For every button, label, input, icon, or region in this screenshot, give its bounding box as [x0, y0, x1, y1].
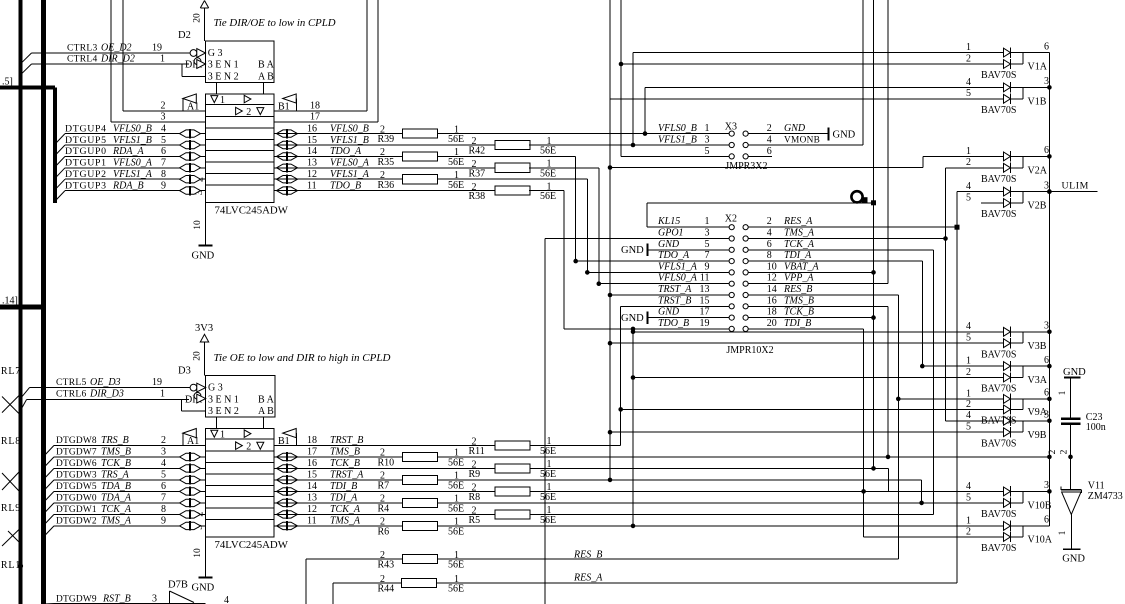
svg-text:17: 17	[700, 307, 710, 318]
wire VFLS1_B to X3	[529, 144, 729, 146]
wire V3B output	[1023, 331, 1049, 333]
resistor R5	[495, 510, 530, 519]
wire to resistor R4	[274, 502, 403, 504]
svg-text:D7B: D7B	[168, 580, 188, 591]
svg-text:CTRL6: CTRL6	[56, 390, 87, 400]
bidirectional buffer arrow	[180, 153, 201, 160]
wire TCK_B row R9	[530, 467, 888, 469]
buffer box D2	[206, 94, 275, 203]
svg-text:TDI_B: TDI_B	[330, 481, 357, 492]
jumper pin circle	[729, 292, 734, 297]
direction glyph down-triangle 1	[211, 430, 218, 437]
bidirectional buffer arrow	[180, 164, 201, 171]
direction glyph right-triangle	[244, 430, 251, 438]
svg-text:DTGDW2: DTGDW2	[56, 517, 97, 527]
buffer row separator	[206, 150, 275, 152]
pin G polarity triangle	[197, 49, 206, 58]
wire DTGUP5 VFLS1_B	[55, 145, 65, 156]
wire VFLS1_A row	[587, 271, 729, 273]
svg-text:DTGDW0: DTGDW0	[56, 494, 97, 504]
wire TDO_B down	[529, 190, 564, 192]
svg-text:18: 18	[310, 100, 320, 111]
svg-text:TCK_B: TCK_B	[330, 458, 360, 469]
svg-text:TCK_A: TCK_A	[784, 239, 815, 250]
svg-text:13: 13	[700, 284, 710, 295]
wire pin 18 to top	[274, 110, 367, 112]
svg-text:3: 3	[705, 135, 710, 146]
pin G bubble	[190, 50, 197, 57]
svg-text:Tie OE to low and DIR to high: Tie OE to low and DIR to high in CPLD	[214, 352, 391, 364]
wire DTGDW2 TMS_A	[44, 526, 54, 537]
svg-text:56E: 56E	[448, 504, 464, 515]
svg-text:R44: R44	[378, 584, 395, 595]
svg-text:9: 9	[161, 180, 166, 191]
junction on rail	[1047, 489, 1052, 494]
svg-text:56E: 56E	[448, 458, 464, 469]
junction	[631, 375, 636, 380]
svg-text:GPO1: GPO1	[658, 228, 684, 239]
svg-text:2: 2	[380, 574, 385, 585]
wire KL15/VBAT/TCK_B vertical from top	[873, 0, 875, 468]
svg-text:R43: R43	[378, 560, 395, 571]
svg-text:56E: 56E	[540, 446, 556, 457]
svg-text:GND: GND	[621, 245, 644, 256]
svg-text:20: 20	[193, 351, 203, 361]
resistor R36	[403, 175, 438, 184]
svg-text:A1: A1	[187, 436, 199, 447]
svg-text:TMS_A: TMS_A	[784, 228, 815, 239]
svg-text:1: 1	[966, 42, 971, 53]
bidirectional buffer arrow	[277, 511, 298, 518]
svg-text:TDI_B: TDI_B	[784, 318, 811, 329]
buffer row separator	[206, 484, 274, 486]
svg-text:BAV70S: BAV70S	[981, 105, 1016, 116]
svg-text:V1B: V1B	[1028, 96, 1047, 107]
wire vertical TRST_B	[620, 306, 622, 445]
svg-text:4: 4	[966, 181, 971, 192]
svg-text:TDO_B: TDO_B	[330, 180, 361, 191]
wire TCK_B	[748, 317, 873, 319]
svg-text:2: 2	[1048, 449, 1058, 454]
svg-text:GND: GND	[1063, 367, 1086, 378]
svg-text:100n: 100n	[1086, 422, 1106, 433]
resistor R9	[495, 464, 530, 473]
wire V1B cathode join	[1011, 86, 1024, 88]
wire TDI_B	[748, 328, 863, 330]
svg-text:11: 11	[700, 273, 710, 284]
bidirectional buffer arrow	[277, 499, 298, 506]
buffer symbol D7B (clipped)	[170, 591, 195, 603]
wire V2A pin2	[946, 167, 1004, 169]
wire V2B cathode join	[1011, 191, 1024, 193]
bidirectional buffer arrow	[180, 453, 201, 460]
junction	[618, 407, 623, 412]
svg-text:V3B: V3B	[1028, 341, 1047, 352]
svg-text:16: 16	[307, 123, 317, 134]
junction on rail	[1047, 85, 1052, 90]
wire TMS_A	[748, 238, 945, 240]
direction glyph right-triangle 2	[236, 442, 243, 450]
svg-text:CTRL9: CTRL9	[0, 503, 21, 514]
svg-text:VFLS0_A: VFLS0_A	[113, 158, 153, 169]
wire V3B pin5	[610, 342, 1004, 344]
svg-text:JMPR3X2: JMPR3X2	[725, 161, 767, 172]
wire KL15 testpoint net	[647, 226, 729, 228]
jumper pin circle	[743, 315, 748, 320]
svg-text:8: 8	[767, 250, 772, 261]
svg-text:R37: R37	[469, 168, 486, 179]
buffer row separator	[206, 450, 274, 452]
pin EN1 polarity triangle	[197, 60, 206, 69]
svg-text:2: 2	[161, 100, 166, 111]
svg-text:3: 3	[161, 112, 166, 123]
svg-text:8: 8	[161, 169, 166, 180]
wire X2 pin5	[649, 249, 730, 251]
svg-text:15: 15	[307, 135, 317, 146]
svg-text:DTGDW7: DTGDW7	[56, 448, 97, 458]
svg-text:V2A: V2A	[1028, 165, 1048, 176]
long wire JMPR row to V2A pin1	[610, 167, 923, 169]
svg-text:Tie DIR/OE to low in CPLD: Tie DIR/OE to low in CPLD	[214, 17, 336, 29]
svg-text:2: 2	[472, 460, 477, 471]
buffer row separator	[206, 161, 275, 163]
svg-text:V9B: V9B	[1028, 430, 1047, 441]
svg-text:TRST_A: TRST_A	[330, 470, 364, 481]
wire TDO_A down	[438, 155, 576, 157]
diode V1B anode 1	[1004, 83, 1011, 92]
svg-text:2: 2	[380, 448, 385, 459]
wire V10B output	[1023, 490, 1049, 492]
svg-text:1: 1	[705, 216, 710, 227]
svg-text:2: 2	[380, 471, 385, 482]
svg-text:4: 4	[966, 77, 971, 88]
diode V3B anode 1	[1004, 327, 1011, 336]
svg-text:VFLS0_B: VFLS0_B	[113, 123, 152, 134]
svg-text:56E: 56E	[448, 527, 464, 538]
wire C23 pin2	[1070, 425, 1072, 457]
svg-text:56E: 56E	[448, 584, 464, 595]
svg-text:2: 2	[246, 107, 251, 118]
junction	[896, 397, 901, 402]
svg-text:6: 6	[767, 239, 772, 250]
svg-text:KL15: KL15	[657, 216, 680, 227]
svg-text:R10: R10	[378, 458, 395, 469]
svg-text:RES_A: RES_A	[783, 216, 813, 227]
wire VFLS0_B to X3	[438, 133, 730, 135]
diode V10B anode 2	[1004, 499, 1011, 508]
svg-text:2: 2	[767, 216, 772, 227]
diode V3B anode 2	[1004, 339, 1011, 348]
bidirectional buffer arrow	[277, 488, 298, 495]
svg-text:BAV70S: BAV70S	[981, 70, 1016, 81]
A-side header arrow	[183, 94, 197, 103]
bidirectional buffer arrow	[277, 130, 298, 137]
svg-text:5: 5	[966, 422, 971, 433]
junction on rail	[1047, 364, 1052, 369]
svg-text:13: 13	[307, 493, 317, 504]
diode V2A anode 1	[1004, 152, 1011, 161]
svg-text:3 E N 2: 3 E N 2	[208, 72, 239, 83]
svg-text:3 E N 1: 3 E N 1	[208, 60, 239, 71]
svg-text:DTGDW1: DTGDW1	[56, 505, 97, 515]
wire to resistor R38	[274, 190, 495, 192]
wire VFLS1_A down	[438, 178, 588, 180]
svg-text:RES_A: RES_A	[573, 573, 603, 584]
diode V9B anode 2	[1004, 428, 1011, 437]
svg-text:2: 2	[380, 494, 385, 505]
wire RES_A row from R44	[437, 582, 958, 584]
wire TDI_B row to V10B pin4	[530, 490, 1004, 492]
svg-text:3 E N 2: 3 E N 2	[208, 406, 239, 417]
wire V3A cathode join	[1011, 365, 1024, 367]
wire V9B output	[1023, 420, 1049, 422]
junction	[608, 165, 613, 170]
wire to resistor R35	[274, 155, 403, 157]
wire TRST_A row	[610, 294, 729, 296]
svg-text:RDA_B: RDA_B	[112, 180, 144, 191]
wire ULIM	[1049, 191, 1097, 193]
svg-text:2: 2	[472, 506, 477, 517]
wire RES_B	[748, 294, 898, 296]
svg-text:11: 11	[307, 516, 317, 527]
svg-text:V10A: V10A	[1028, 535, 1053, 546]
diode V1B anode 2	[1004, 94, 1011, 103]
svg-text:GND: GND	[833, 130, 856, 141]
wire TDI_A	[748, 260, 922, 262]
svg-text:2: 2	[380, 147, 385, 158]
wire V3A output	[1023, 365, 1049, 367]
junction on bus A	[18, 563, 23, 568]
svg-text:5: 5	[705, 146, 710, 157]
wire VFLS0_A down	[529, 167, 599, 169]
wire TDI_A row to V10B pin5	[438, 502, 1004, 504]
svg-text:DIR_D2: DIR_D2	[100, 54, 135, 65]
testpoint symbol	[851, 191, 862, 202]
wire DTGUP4 VFLS0_B	[55, 134, 65, 145]
bidirectional buffer arrow	[180, 499, 201, 506]
wire X entry at bus A	[2, 397, 19, 414]
wire DTGDW7 TMS_B	[44, 457, 54, 468]
svg-text:12: 12	[767, 273, 777, 284]
wire X entry at bus A	[2, 473, 19, 491]
wire TMS_B clamp row R10	[438, 456, 1050, 458]
wire DTGDW1 TCK_A	[44, 514, 54, 525]
wire vertical GPO1 down	[544, 239, 546, 604]
wire V1B pin4 horizontal	[645, 86, 1004, 88]
wire V10A cathode join	[1011, 525, 1024, 527]
svg-text:A1: A1	[187, 102, 199, 113]
wire header arrow tap B1	[296, 99, 298, 111]
connector tab left	[216, 417, 218, 428]
svg-text:D2: D2	[178, 30, 191, 41]
wire DTGUP3 RDA_B	[55, 191, 65, 202]
wire GPO1	[545, 238, 729, 240]
wire V1B output	[1023, 86, 1049, 88]
bidirectional buffer arrow	[180, 511, 201, 518]
svg-text:2: 2	[472, 159, 477, 170]
svg-text:5: 5	[966, 492, 971, 503]
wire to resistor R10	[274, 456, 403, 458]
svg-text:V2B: V2B	[1028, 201, 1047, 212]
svg-text:DTGUP0: DTGUP0	[65, 146, 107, 157]
jumper pin circle	[729, 281, 734, 286]
svg-text:2: 2	[472, 437, 477, 448]
wire vertical V1B pin5 net	[609, 0, 611, 480]
svg-text:14: 14	[767, 284, 777, 295]
svg-text:GND: GND	[658, 307, 680, 318]
wire vertical TRST_A to V10B pin5	[921, 480, 923, 503]
wire X entry at bus A	[2, 472, 19, 490]
wire CTRL5 OE_D3	[21, 388, 30, 399]
svg-text:BAV70S: BAV70S	[981, 509, 1016, 520]
bus net A (thick vertical)	[18, 0, 22, 604]
svg-text:4: 4	[767, 228, 772, 239]
svg-text:DTGUP2: DTGUP2	[65, 169, 107, 180]
bidirectional buffer arrow	[180, 476, 201, 483]
bidirectional buffer arrow	[180, 130, 201, 137]
svg-text:VMONB: VMONB	[784, 136, 820, 146]
jumper pin circle	[743, 292, 748, 297]
buffer row separator	[206, 473, 274, 475]
svg-text:2: 2	[380, 550, 385, 561]
buffer row separator	[206, 127, 275, 129]
wire R5 row	[530, 513, 934, 515]
wire TCK_A	[748, 249, 933, 251]
connector tab left	[216, 83, 218, 95]
svg-text:3: 3	[152, 594, 157, 604]
svg-text:4: 4	[767, 135, 772, 146]
wire V2A output	[1023, 155, 1049, 157]
svg-text:TRST_A: TRST_A	[658, 284, 692, 295]
wire EN2 loop	[181, 400, 183, 411]
wire V9A pin1	[898, 398, 1003, 400]
svg-text:VFLS1_B: VFLS1_B	[330, 135, 369, 146]
junction on rail	[1047, 419, 1052, 424]
svg-text:VFLS0_A: VFLS0_A	[330, 158, 370, 169]
svg-text:7: 7	[161, 158, 166, 169]
wire R6 row to V10A pin1	[438, 525, 1004, 527]
svg-text:OE_D3: OE_D3	[90, 377, 121, 388]
resistor R7	[403, 475, 438, 484]
junction	[619, 62, 624, 67]
junction on rail	[1047, 154, 1052, 159]
svg-text:VFLS1_B: VFLS1_B	[113, 135, 152, 146]
junction	[597, 281, 602, 286]
svg-text:VFLS0_B: VFLS0_B	[658, 123, 697, 134]
resistor R44	[402, 578, 437, 587]
svg-text:5: 5	[966, 333, 971, 344]
svg-text:R35: R35	[378, 157, 395, 168]
svg-text:2: 2	[966, 399, 971, 410]
svg-text:R36: R36	[378, 180, 395, 191]
svg-text:VFLS1_A: VFLS1_A	[113, 169, 153, 180]
svg-text:R6: R6	[378, 527, 390, 538]
pin 10 GND stem	[205, 537, 207, 577]
wire V9B cathode join	[1011, 420, 1024, 422]
svg-text:10: 10	[767, 261, 777, 272]
diode V2A anode 2	[1004, 163, 1011, 172]
svg-text:VFLS0_A: VFLS0_A	[658, 273, 698, 284]
svg-text:BAV70S: BAV70S	[981, 349, 1016, 360]
svg-text:TDO_B: TDO_B	[658, 318, 689, 329]
svg-text:2: 2	[246, 441, 251, 452]
jumper pin circle	[743, 259, 748, 264]
ground symbol D3	[199, 577, 213, 579]
svg-text:15: 15	[700, 295, 710, 306]
svg-text:56E: 56E	[540, 492, 556, 503]
wire to resistor R6	[274, 525, 403, 527]
buffer row separator	[206, 519, 274, 521]
svg-text:9: 9	[161, 516, 166, 527]
svg-text:56E: 56E	[540, 146, 556, 157]
wire VFLS0_A row	[599, 283, 729, 285]
resistor R35	[403, 152, 438, 161]
wire DTGDW6 TCK_B	[44, 468, 54, 479]
wire V10B cathode join	[1011, 490, 1024, 492]
B-side header arrow	[283, 429, 297, 438]
buffer row separator	[206, 462, 274, 464]
svg-text:TCK_B: TCK_B	[784, 307, 814, 318]
wire pin 2 A1 from top	[122, 0, 124, 111]
resistor R38	[495, 186, 530, 195]
wire to resistor R37	[274, 167, 495, 169]
wire VMONB up	[748, 144, 863, 146]
junction	[643, 131, 648, 136]
wire vertical V1A pin1	[632, 53, 634, 145]
jumper pin circle	[743, 236, 748, 241]
svg-text:TRS_B: TRS_B	[101, 435, 129, 446]
svg-text:JMPR10X2: JMPR10X2	[726, 345, 773, 356]
svg-text:1: 1	[220, 430, 225, 441]
junction	[608, 341, 613, 346]
bidirectional buffer arrow	[277, 141, 298, 148]
svg-text:DTGUP1: DTGUP1	[65, 158, 107, 169]
junction	[585, 270, 590, 275]
svg-text:VPP_A: VPP_A	[784, 273, 814, 284]
wire DTGUP2 VFLS1_A	[55, 179, 65, 190]
svg-text:CTRL8: CTRL8	[0, 436, 21, 447]
junction	[886, 455, 891, 460]
resistor R37	[495, 163, 530, 172]
bus entry thick wire from sheet .5	[0, 85, 55, 89]
svg-text:19: 19	[152, 377, 162, 388]
junction	[631, 330, 636, 335]
svg-text:19: 19	[700, 318, 710, 329]
svg-text:R7: R7	[378, 481, 390, 492]
svg-text:V1A: V1A	[1028, 62, 1048, 73]
svg-text:56E: 56E	[540, 168, 556, 179]
diode V9A anode 1	[1004, 395, 1011, 404]
svg-text:R38: R38	[469, 191, 486, 202]
wire X3 pin6 stub	[748, 155, 772, 157]
bus net B (thick vertical)	[41, 0, 46, 604]
svg-text:18: 18	[767, 307, 777, 318]
svg-text:7: 7	[161, 493, 166, 504]
bidirectional buffer arrow	[180, 488, 201, 495]
bidirectional buffer arrow	[180, 465, 201, 472]
wire ULIM rail	[1048, 53, 1050, 526]
svg-text:TDI_A: TDI_A	[330, 493, 358, 504]
svg-text:DTGDW5: DTGDW5	[56, 482, 97, 492]
wire to resistor R42	[274, 144, 495, 146]
svg-text:RES_B: RES_B	[783, 284, 812, 295]
buffer row separator	[206, 138, 275, 140]
svg-text:DTGUP4: DTGUP4	[65, 123, 107, 134]
svg-text:TRST_B: TRST_B	[330, 435, 363, 446]
pin EN1 bubble	[194, 392, 201, 399]
wire V1A pin2 horizontal	[621, 63, 1004, 65]
wire V3A pin2	[633, 377, 1004, 379]
